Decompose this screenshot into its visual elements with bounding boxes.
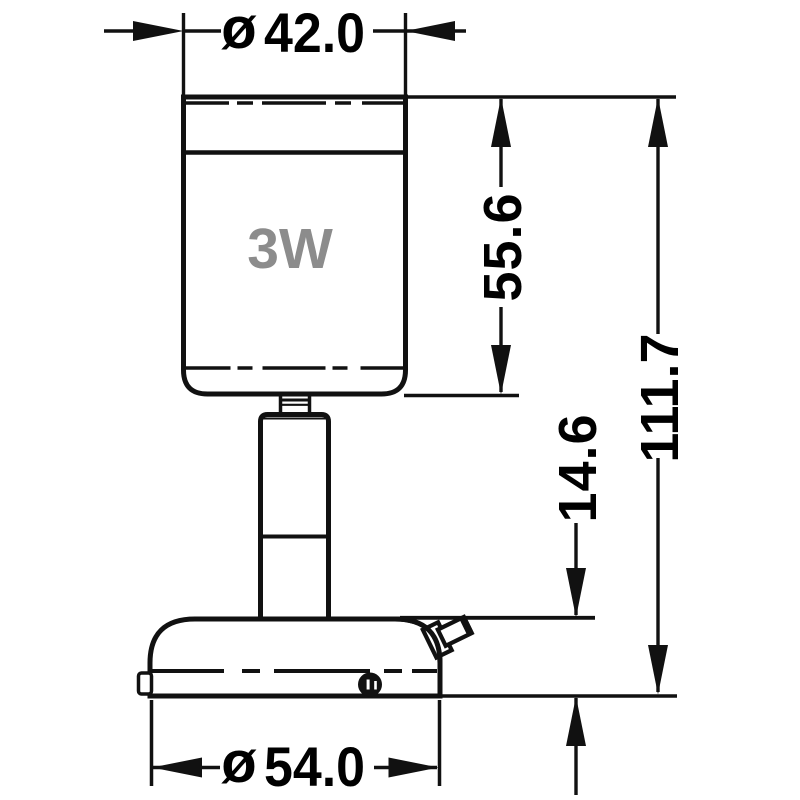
55.6 bottom arrowhead xyxy=(491,345,511,395)
base bottom extension line (111.7 / 14.6) xyxy=(442,694,677,698)
dia42 extension line right xyxy=(404,13,407,95)
head bottom dash-dot line xyxy=(184,366,405,370)
dia54 extension line right xyxy=(438,700,442,786)
lamp neck (small connector between head and stem) xyxy=(279,394,311,412)
svg-text:ø: ø xyxy=(221,0,257,61)
dia54 dimension line and arrows xyxy=(153,766,437,769)
connector barrel xyxy=(438,616,474,646)
power connector flange on base shoulder xyxy=(423,622,452,657)
svg-text:3W: 3W xyxy=(247,217,333,281)
screw slot highlights xyxy=(367,680,370,690)
head top dash-dot line xyxy=(185,101,403,105)
55.6 dimension line xyxy=(499,99,502,187)
dia42 extension line left xyxy=(182,13,185,95)
14.6 upper arrowhead xyxy=(566,568,586,618)
head bezel line xyxy=(184,150,406,155)
55.6 top arrowhead xyxy=(491,98,511,148)
top extension line (55.6 / 111.7) xyxy=(404,95,676,99)
dia54 right arrowhead xyxy=(389,758,439,778)
svg-text:42.0: 42.0 xyxy=(264,1,365,64)
base left tab xyxy=(139,673,152,694)
stem mid divider xyxy=(259,535,331,539)
111.7 dimension line xyxy=(656,99,659,334)
55.6 lower extension line xyxy=(404,394,519,398)
dia54 extension line left xyxy=(150,700,154,786)
svg-text:ø: ø xyxy=(221,730,257,795)
svg-text:55.6: 55.6 xyxy=(473,192,533,301)
svg-text:111.7: 111.7 xyxy=(630,333,690,462)
stem top inner line xyxy=(263,418,326,420)
dia54 left arrowhead xyxy=(152,758,202,778)
dome shoulder curve redrawn over flange xyxy=(395,619,440,663)
111.7 top arrowhead xyxy=(648,98,668,148)
14.6 dimension line upper part xyxy=(574,523,577,615)
base dome xyxy=(150,619,440,696)
base screw xyxy=(358,673,382,697)
dia42 right arrowhead xyxy=(406,21,456,41)
lamp stem (pole) xyxy=(261,415,329,622)
14.6 dimension line lower part xyxy=(574,698,577,795)
svg-text:54.0: 54.0 xyxy=(264,735,365,798)
dia42 dimension line and outside arrows xyxy=(104,29,466,32)
base centerline (dash-dot) xyxy=(150,669,437,673)
lamp head (cylinder) xyxy=(184,97,406,394)
14.6 upper extension line xyxy=(400,616,595,620)
dia42 left arrowhead xyxy=(133,21,184,41)
svg-text:14.6: 14.6 xyxy=(548,413,608,522)
111.7 bottom arrowhead xyxy=(648,645,668,695)
14.6 lower arrowhead xyxy=(566,697,586,747)
